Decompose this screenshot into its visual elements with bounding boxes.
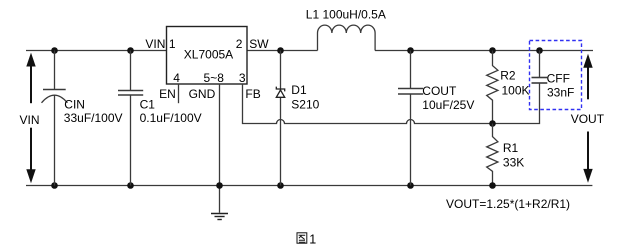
svg-text:FB: FB <box>245 87 260 101</box>
wire top rail left segment <box>26 50 167 52</box>
node CIN bottom junction <box>51 182 58 189</box>
svg-text:10uF/25V: 10uF/25V <box>422 98 474 112</box>
svg-text:CFF: CFF <box>547 72 570 86</box>
svg-text:100K: 100K <box>502 84 530 98</box>
node FB junction R1/R2 <box>489 120 496 127</box>
resistor R1 <box>487 124 498 186</box>
diode D1 (Schottky S210) <box>276 51 284 186</box>
wire top rail right segment (SW node to output) <box>247 50 593 52</box>
inductor L1 <box>318 25 376 50</box>
svg-text:EN: EN <box>159 87 176 101</box>
node COUT bottom junction <box>407 182 414 189</box>
svg-text:CIN: CIN <box>64 97 85 111</box>
svg-text:D1: D1 <box>291 83 307 97</box>
wire EN pin stub <box>178 84 180 103</box>
node CIN top junction <box>51 47 58 54</box>
svg-text:L1 100uH/0.5A: L1 100uH/0.5A <box>306 8 386 22</box>
node D1 top junction (SW node) <box>277 47 284 54</box>
svg-text:S210: S210 <box>291 98 319 112</box>
svg-text:1: 1 <box>309 232 316 246</box>
svg-text:R1: R1 <box>503 141 519 155</box>
node GND rail junction <box>216 182 223 189</box>
svg-text:SW: SW <box>249 37 269 51</box>
svg-text:VOUT=1.25*(1+R2/R1): VOUT=1.25*(1+R2/R1) <box>446 197 570 211</box>
svg-text:R2: R2 <box>500 68 516 82</box>
capacitor COUT <box>398 51 423 186</box>
svg-text:C1: C1 <box>140 97 156 111</box>
node CFF top junction <box>536 47 543 54</box>
caption figure glyph 图 (drawn) <box>297 233 307 243</box>
dashed highlight box around CFF <box>530 41 582 110</box>
wire bottom rail <box>26 185 592 187</box>
capacitor CIN (electrolytic) <box>42 51 68 186</box>
svg-text:3: 3 <box>239 71 246 85</box>
node R2 top junction <box>489 47 496 54</box>
wire FB pin route with hops over D1 and COUT lines <box>243 83 540 124</box>
ground <box>211 214 228 220</box>
node R1 bottom junction <box>489 182 496 189</box>
node D1 bottom junction <box>277 182 284 189</box>
capacitor CFF <box>532 51 548 84</box>
svg-text:1: 1 <box>169 37 176 51</box>
svg-text:VIN: VIN <box>145 37 165 51</box>
VIN input arrow up <box>26 53 35 104</box>
op-amp U1 XL7005A regulator box <box>167 27 248 85</box>
svg-text:VOUT: VOUT <box>571 112 605 126</box>
node COUT top junction <box>407 47 414 54</box>
svg-text:0.1uF/100V: 0.1uF/100V <box>140 111 202 125</box>
svg-text:GND: GND <box>189 87 216 101</box>
capacitor C1 <box>118 51 143 186</box>
svg-text:33K: 33K <box>503 155 524 169</box>
svg-text:33uF/100V: 33uF/100V <box>64 111 123 125</box>
resistor R2 <box>487 51 498 124</box>
wire GND pin to ground <box>219 84 221 213</box>
svg-text:XL7005A: XL7005A <box>184 48 233 62</box>
svg-text:5~8: 5~8 <box>204 71 225 85</box>
node C1 top junction <box>127 47 134 54</box>
svg-text:COUT: COUT <box>422 84 457 98</box>
VIN input arrow down <box>26 128 35 184</box>
svg-text:4: 4 <box>173 71 180 85</box>
svg-text:33nF: 33nF <box>547 86 574 100</box>
svg-text:2: 2 <box>236 37 243 51</box>
node C1 bottom junction <box>127 182 134 189</box>
VOUT output arrow up <box>583 54 592 100</box>
svg-text:VIN: VIN <box>20 113 40 127</box>
VOUT output arrow down <box>583 132 592 183</box>
